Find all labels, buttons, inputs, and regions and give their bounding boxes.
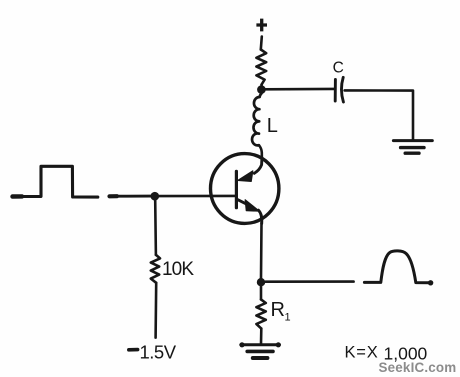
wire R1 to ground [260, 329, 263, 344]
V+ supply terminal [256, 19, 267, 32]
resistor (collector supply, unlabeled) [256, 50, 266, 85]
transistor Q1 [211, 154, 279, 224]
svg-text:K=X: K=X [345, 344, 379, 362]
node: collector supply junction [257, 85, 266, 94]
wire node to transistor base [159, 195, 235, 198]
wire input to base [110, 195, 151, 198]
wire transistor emitter down to node [260, 223, 263, 279]
wire supply to collector resistor [261, 37, 262, 50]
capacitor C [335, 77, 343, 102]
inductor L [252, 94, 261, 146]
wire node down to R1 [260, 286, 263, 299]
ground (top right) [393, 141, 432, 154]
label R1 [271, 299, 291, 324]
svg-text:1: 1 [285, 312, 291, 324]
svg-text:SeekIC.com: SeekIC.com [379, 360, 457, 375]
node: base junction [151, 192, 160, 201]
input pulse waveform [12, 166, 98, 197]
resistor 10K [151, 255, 160, 283]
wire node down to 10K resistor [154, 200, 157, 255]
svg-text:10K: 10K [162, 259, 194, 280]
label K = X 1,000 [345, 344, 428, 364]
output pulse waveform [364, 251, 433, 286]
svg-text:L: L [267, 115, 278, 137]
svg-text:C: C [333, 60, 344, 77]
label -1.5V [129, 341, 177, 362]
wire 10K resistor to -1.5V terminal [154, 283, 157, 338]
wire resistor to node [260, 85, 263, 89]
wire node to capacitor [264, 88, 334, 91]
wire output horizontal [266, 280, 354, 283]
ground (bottom) [239, 342, 281, 358]
svg-text:1.5V: 1.5V [140, 341, 177, 362]
resistor R1 [256, 299, 265, 328]
svg-text:R: R [271, 299, 285, 321]
wire capacitor to top-right corner and down [345, 90, 413, 139]
node: emitter output junction [257, 278, 265, 286]
wire inductor to transistor collector [259, 145, 262, 158]
